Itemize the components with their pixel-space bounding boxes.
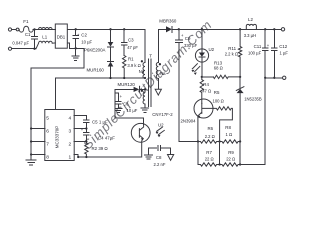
pin 6 wire [31, 128, 45, 130]
resistor R7 [198, 163, 220, 166]
transformer secondary Ns [157, 29, 159, 88]
node: C2 top [75, 28, 77, 30]
resistor R9 [220, 163, 241, 166]
ground (C8) [145, 155, 153, 159]
svg-text:22 Ω: 22 Ω [226, 157, 235, 162]
secondary return arrow at C8 [168, 155, 174, 161]
svg-text:2.2 k Ω: 2.2 k Ω [225, 52, 238, 57]
svg-text:F1: F1 [23, 19, 29, 24]
output terminal + [281, 28, 284, 31]
svg-text:1N5235B: 1N5235B [244, 97, 262, 102]
output terminal - [283, 76, 286, 79]
svg-text:1 µF: 1 µF [280, 50, 289, 55]
resistor R6 [198, 140, 220, 143]
transformer primary Np [143, 63, 145, 79]
wire top to DB1 [35, 28, 56, 30]
svg-text:C1: C1 [25, 32, 31, 37]
wire to R13 [202, 76, 214, 78]
svg-text:47 pF: 47 pF [127, 45, 138, 50]
capacitor C4 [84, 133, 90, 144]
svg-text:DB1: DB1 [57, 34, 66, 39]
diode MUR120 [115, 88, 134, 90]
wire: DC- to ground [31, 43, 84, 155]
svg-text:4: 4 [69, 115, 72, 121]
svg-text:MBR360: MBR360 [159, 18, 177, 23]
svg-text:C9: C9 [185, 36, 191, 41]
pin 8 wire [31, 154, 45, 156]
node: C12 bottom [273, 77, 275, 79]
svg-text:C8: C8 [156, 155, 162, 160]
svg-text:100 µF: 100 µF [248, 50, 262, 55]
pin 2 wire [74, 141, 86, 143]
inductor L1 common-mode choke [39, 28, 53, 30]
transformer auxiliary winding [144, 89, 146, 107]
capacitor C12 [272, 29, 278, 78]
node: C12 top [273, 28, 275, 30]
capacitor C9 [175, 29, 182, 141]
sense ladder left rail [197, 142, 199, 165]
node: ladder right top [239, 140, 241, 142]
transistor Q1 2N3904 [194, 99, 213, 118]
node: C3 top [123, 28, 125, 30]
svg-text:3: 3 [69, 128, 72, 134]
svg-text:100 Ω: 100 Ω [213, 99, 224, 104]
ground (IC pins) [26, 155, 36, 165]
svg-text:R8: R8 [225, 125, 231, 130]
resistor R1 [122, 56, 125, 79]
fuse F1 [19, 26, 33, 32]
svg-text:2.2 Ω: 2.2 Ω [205, 134, 215, 139]
node: primary bottom joint [144, 77, 146, 79]
watermark [80, 17, 215, 152]
diode MUR160 [108, 60, 114, 62]
wire: DC+ rail [67, 29, 145, 62]
resistor R8 [220, 140, 241, 143]
inductor L2 [246, 24, 256, 29]
capacitor C11 [262, 29, 268, 78]
node: MUR160 bottom [109, 77, 111, 79]
input terminal bottom [8, 47, 11, 50]
svg-text:2N3904: 2N3904 [181, 119, 197, 124]
svg-text:U2: U2 [209, 47, 215, 52]
zener diode 1N5235B [239, 77, 241, 89]
node: MUR120 cathode / aux top [144, 88, 146, 90]
node: ladder mid bottom [218, 163, 220, 165]
svg-text:68 Ω: 68 Ω [214, 65, 223, 70]
optocoupler U2 LED [201, 29, 203, 52]
resistor R2 [85, 143, 88, 157]
node: C2 bottom / ground junction [75, 47, 77, 49]
svg-text:47 Ω: 47 Ω [202, 88, 211, 93]
node: R1 bottom [123, 77, 125, 79]
resistor R11 [238, 29, 241, 77]
svg-text:C11: C11 [254, 44, 262, 49]
svg-text:P6KE200A: P6KE200A [84, 48, 106, 53]
capacitor C3 [121, 29, 127, 55]
svg-text:5: 5 [46, 115, 49, 121]
node: ladder right bottom [239, 163, 241, 165]
node: C11 bottom [264, 77, 266, 79]
node: ladder mid top [218, 140, 220, 142]
input terminal top [8, 28, 11, 31]
svg-text:C12: C12 [279, 44, 288, 49]
pin 1 / feedback rail [74, 155, 142, 158]
svg-text:10 µF: 10 µF [127, 108, 138, 113]
transformer T core [149, 59, 152, 107]
svg-text:2: 2 [69, 141, 72, 147]
node: LED top [201, 28, 203, 30]
node: C1 bottom junction [33, 48, 35, 50]
svg-text:C3: C3 [128, 37, 134, 42]
svg-text:C6: C6 [123, 102, 129, 107]
node: LED bottom / R13 left [201, 76, 203, 78]
svg-text:CNY17F-2: CNY17F-2 [152, 112, 173, 117]
resistor R5 [213, 107, 232, 142]
ladder mid rail [219, 142, 221, 165]
light arrows from LED [192, 64, 200, 72]
svg-text:R4: R4 [203, 82, 209, 87]
svg-text:2.2 nF: 2.2 nF [154, 162, 166, 167]
secondary return arrow under Ns [155, 89, 161, 95]
svg-text:7: 7 [46, 141, 49, 147]
ladder right rail [239, 142, 241, 165]
svg-text:330 µF: 330 µF [184, 43, 198, 48]
svg-text:T: T [149, 53, 152, 58]
svg-text:10 µF: 10 µF [81, 39, 92, 44]
svg-text:6: 6 [46, 128, 49, 134]
pin 3 wire [74, 128, 86, 130]
bridge rectifier DB1 [55, 24, 67, 48]
node: C9 top [178, 28, 180, 30]
svg-text:L2: L2 [248, 17, 253, 22]
svg-text:Np: Np [139, 69, 145, 74]
diode MBR360 [158, 28, 166, 30]
wire [12, 29, 16, 31]
capacitor C2 [73, 29, 79, 48]
ground (C6) [115, 108, 122, 112]
capacitor C6 [115, 93, 121, 108]
optocoupler U2 phototransistor [131, 123, 150, 142]
light arrows into phototransistor [157, 127, 165, 134]
svg-text:R11: R11 [228, 46, 236, 51]
node: R13 right / zener top [239, 76, 241, 78]
svg-text:C4 47µF: C4 47µF [98, 135, 115, 140]
capacitor C5 [84, 120, 90, 133]
svg-text:C2: C2 [81, 33, 87, 38]
svg-text:R7: R7 [206, 150, 212, 155]
svg-text:U2: U2 [158, 122, 164, 127]
wire: drain node [56, 78, 145, 110]
svg-text:1: 1 [69, 154, 72, 160]
resistor R13 [213, 75, 240, 78]
svg-text:3.9 k Ω: 3.9 k Ω [127, 63, 140, 68]
svg-text:R2 39 Ω: R2 39 Ω [92, 146, 109, 151]
resistor R4 [200, 77, 203, 104]
ground (C2) [72, 48, 79, 60]
node: C11 top [264, 28, 266, 30]
svg-text:22 Ω: 22 Ω [205, 157, 214, 162]
svg-text:R6: R6 [208, 126, 214, 131]
svg-text:R1: R1 [128, 56, 134, 61]
svg-text:3.3 µH: 3.3 µH [244, 33, 256, 38]
wire: return rail [265, 77, 282, 79]
wire bottom [12, 48, 36, 50]
svg-text:1 Ω: 1 Ω [226, 132, 233, 137]
node: C1 top junction [33, 28, 35, 30]
capacitor C8 [149, 145, 171, 154]
svg-text:Ns: Ns [160, 71, 166, 76]
IC U1 MC33370P [45, 110, 74, 161]
svg-text:MUR160: MUR160 [87, 68, 105, 73]
svg-text:L1: L1 [42, 35, 47, 40]
pin 4 wire [74, 116, 86, 120]
fuse F1 terminal circle [16, 28, 19, 31]
TVS diode P6KE200A [110, 29, 112, 42]
svg-text:R5: R5 [214, 90, 220, 95]
node: P6KE top [109, 28, 111, 30]
svg-text:0.047 µF: 0.047 µF [12, 41, 29, 46]
ground (aux winding) [141, 108, 148, 112]
svg-text:C5 1 µF: C5 1 µF [92, 119, 108, 124]
pin 7 wire [31, 141, 45, 143]
capacitor C1 [32, 29, 38, 48]
wire: Vcc to phototransistor collector [115, 89, 144, 124]
svg-text:MC33370P: MC33370P [55, 126, 60, 149]
svg-text:8: 8 [46, 154, 49, 160]
node: R11 top [239, 28, 241, 30]
wire: return to output [240, 78, 265, 165]
svg-text:MUR120: MUR120 [118, 82, 136, 87]
node: C9/emitter junction [179, 141, 198, 143]
svg-text:R9: R9 [228, 150, 234, 155]
